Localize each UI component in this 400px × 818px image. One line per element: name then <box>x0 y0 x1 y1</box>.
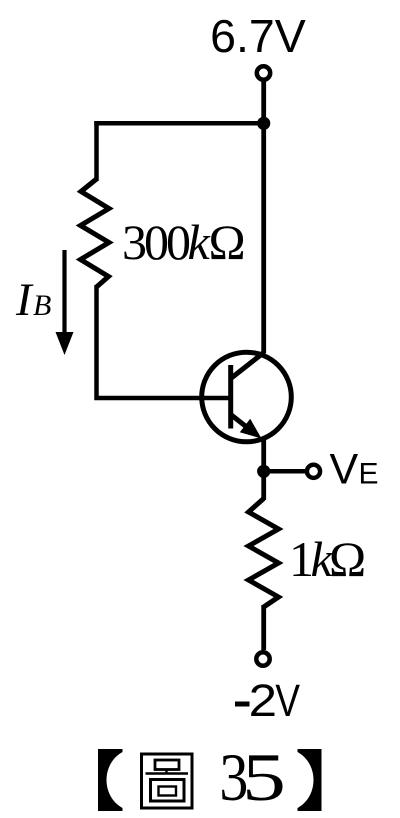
svg-text:Ω: Ω <box>329 531 366 587</box>
transistor Q1 collector diagonal <box>231 352 265 379</box>
node top junction <box>257 117 270 130</box>
resistor RE 1k zigzag <box>249 499 279 608</box>
transistor Q1 base bar <box>228 365 233 429</box>
label -2V supply <box>235 675 300 726</box>
wire collector vertical (terminal to transistor) <box>261 81 266 353</box>
wire emitter vertical <box>261 439 266 475</box>
svg-text:6.7V: 6.7V <box>210 10 306 62</box>
svg-text:I: I <box>15 274 34 326</box>
caption left bracket <box>98 749 163 811</box>
svg-text:5: 5 <box>242 739 286 815</box>
svg-text:2: 2 <box>249 675 277 726</box>
svg-text:300: 300 <box>122 214 191 270</box>
transistor Q1 emitter diagonal with arrow <box>231 415 262 439</box>
value label 300kOhm <box>122 214 246 270</box>
node label VE <box>330 446 379 494</box>
transistor Q1 circle <box>202 352 292 442</box>
current label IB <box>15 274 51 326</box>
wire emitter to VE terminal <box>264 469 307 474</box>
node emitter junction <box>257 465 270 478</box>
terminal 6.7V (open circle) <box>257 66 270 79</box>
wire left upper vertical <box>94 121 99 181</box>
wire top horizontal <box>94 121 263 126</box>
svg-text:k: k <box>188 214 211 270</box>
svg-text:B: B <box>33 289 51 322</box>
wire RE to -2V terminal <box>261 605 266 650</box>
wire emitter junction to RE <box>261 471 266 500</box>
svg-text:E: E <box>359 458 379 491</box>
caption character tu (figure) <box>142 754 193 808</box>
caption right bracket <box>258 749 322 811</box>
svg-text:V: V <box>330 446 359 494</box>
wire left lower vertical and base horizontal <box>97 285 232 398</box>
terminal VE (open circle) <box>307 465 320 478</box>
svg-text:Ω: Ω <box>209 214 246 270</box>
svg-text:V: V <box>275 675 300 726</box>
value label 1kOhm <box>289 531 366 587</box>
terminal -2V (open circle) <box>256 652 269 665</box>
resistor RB 300k zigzag <box>81 179 110 287</box>
arrow IB direction <box>56 250 74 355</box>
